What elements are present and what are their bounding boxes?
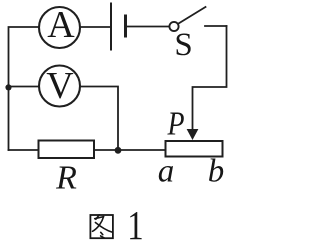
- wire junction to rheostat terminal a: [118, 149, 166, 151]
- wire battery to switch: [127, 26, 170, 28]
- caption hanzi "tu" (figure) drawn as strokes: [90, 215, 113, 238]
- svg-text:1: 1: [127, 204, 143, 241]
- ammeter A circle: [39, 7, 80, 48]
- wire left rail junction to voltmeter: [9, 86, 40, 88]
- switch S pivot circle: [169, 22, 178, 31]
- wire ammeter to battery: [80, 26, 110, 28]
- svg-text:V: V: [46, 65, 74, 107]
- wire top-left: left vertical rail top corner to ammeter: [9, 27, 40, 150]
- svg-text:a: a: [158, 154, 175, 190]
- rheostat slider arrow shaft+head P: [187, 129, 199, 140]
- svg-text:P: P: [167, 104, 185, 142]
- wire resistor to junction: [94, 149, 118, 151]
- rheostat body rectangle: [166, 141, 223, 157]
- svg-text:b: b: [208, 154, 225, 190]
- battery short plate (-): [124, 16, 127, 36]
- switch S fixed contact wire: [205, 25, 227, 27]
- wire right rail down from switch: [193, 26, 227, 130]
- junction dot left: [5, 84, 11, 90]
- svg-text:R: R: [55, 160, 77, 197]
- switch S lever (open): [179, 7, 206, 24]
- voltmeter V circle: [39, 66, 80, 107]
- wire voltmeter right, down to bottom junction: [81, 87, 119, 151]
- junction dot bottom: [115, 147, 122, 154]
- svg-text:S: S: [174, 27, 192, 63]
- wire bottom-left corner to resistor: [9, 149, 39, 151]
- resistor R body rectangle: [39, 141, 95, 159]
- battery long plate (+): [110, 4, 112, 50]
- svg-text:A: A: [47, 4, 75, 46]
